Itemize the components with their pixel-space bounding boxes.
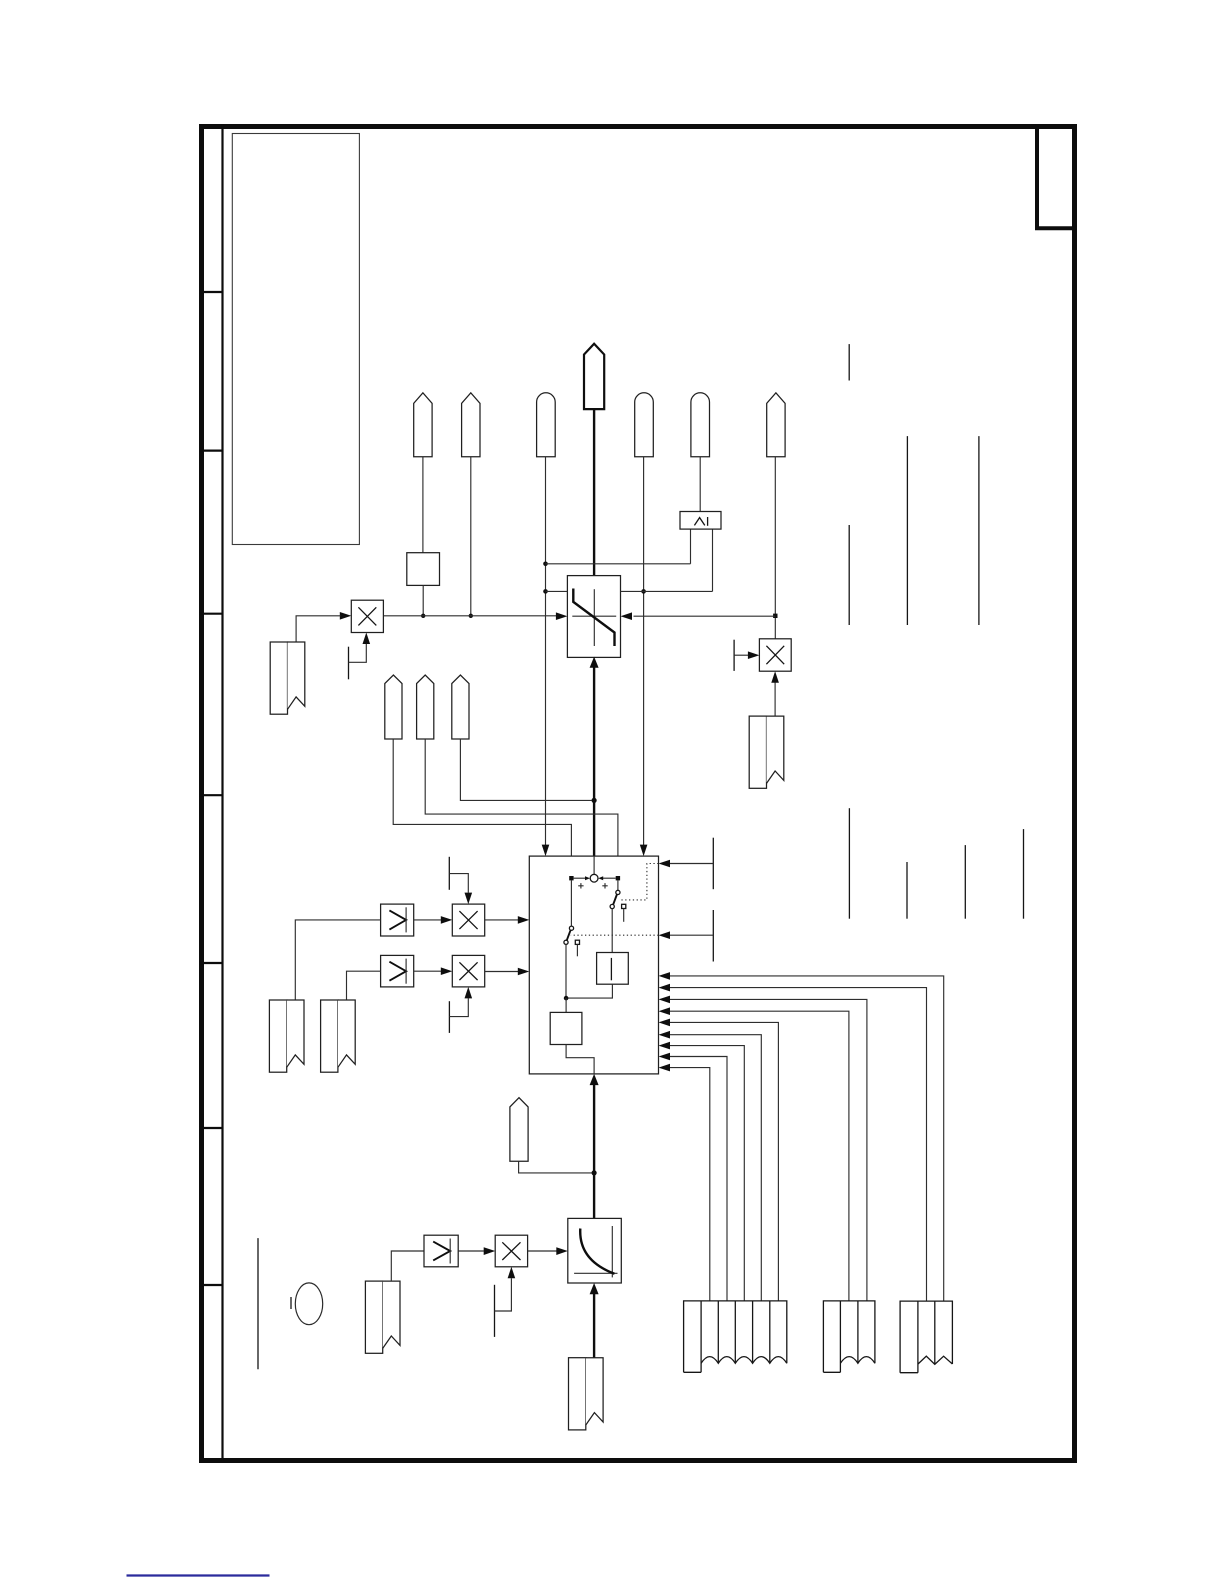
wire TB4 to X4 bottom — [449, 998, 468, 1016]
arrow into exp block left — [556, 1247, 568, 1255]
port tag P8 — [510, 1098, 528, 1162]
junction dot P3/y564 — [543, 562, 548, 567]
arrow into subsystem right #9 — [659, 1064, 671, 1072]
annotation tick — [290, 1297, 292, 1309]
X5 glyph — [502, 1242, 520, 1260]
footer hyperlink underline — [127, 1574, 270, 1576]
arrow into X3 top — [465, 893, 473, 905]
X2 glyph — [766, 646, 784, 664]
R5 glyph chevron — [433, 1242, 450, 1261]
wire X3 to subsystem left — [485, 919, 518, 921]
wire Pc to bold trunk — [460, 739, 591, 800]
arrow into subsystem right #6 — [659, 1031, 671, 1039]
saturation block — [567, 576, 620, 658]
goto tag F4 right half — [338, 1000, 355, 1067]
annotation line L5 — [848, 808, 850, 919]
port tag P3 (rounded) — [537, 393, 556, 457]
bar block (1/z) — [597, 953, 629, 985]
arrow into subsystem right #4 — [659, 1007, 671, 1015]
goto tag F3 right half — [287, 1000, 304, 1067]
port tag P2 — [462, 393, 480, 457]
junction square dot sum right — [616, 876, 620, 880]
wire y591 left piece — [546, 590, 568, 592]
strip divider 5 — [199, 962, 223, 964]
annotation line L1 — [848, 344, 850, 380]
port tag P5 (rounded) — [635, 393, 654, 457]
wire lower switch down — [565, 944, 567, 998]
wire from-tag riser 2 — [670, 988, 927, 1302]
mini arrow into sum right — [598, 876, 603, 880]
R5 glyph bar — [449, 1239, 451, 1264]
strip divider 3 — [199, 613, 223, 615]
GE glyph chevron — [694, 518, 704, 526]
arrow into X1 left — [340, 612, 352, 620]
lower switch unused square — [575, 940, 579, 944]
page border frame — [202, 127, 1075, 1461]
plus sign left — [578, 883, 583, 888]
group A divider 4 — [752, 1301, 754, 1363]
from tag F6 left half — [569, 1358, 586, 1430]
junction dot S2 net — [564, 996, 569, 1001]
from-tag group A top edge — [684, 1301, 787, 1372]
relational block R2 — [381, 955, 414, 987]
upper switch lever — [613, 895, 617, 905]
wire bold trunk subsystem to exp block — [593, 1084, 595, 1218]
group A scallops — [701, 1357, 787, 1364]
port tag Pc — [452, 675, 469, 739]
constant bar TB4 — [448, 1001, 450, 1033]
mini arrow into sum left — [585, 876, 590, 880]
arrow into X4 left — [441, 967, 453, 975]
port tag P1 — [414, 393, 432, 457]
annotation line L2 — [906, 436, 908, 625]
lower switch throw circle — [564, 940, 568, 944]
wire from-tag riser 4 — [670, 1011, 849, 1301]
wire bold trunk subsystem to saturation — [593, 667, 595, 856]
bold arrow into saturation bottom — [590, 657, 599, 668]
group A divider 3 — [734, 1301, 736, 1363]
arrow into X4 bottom — [465, 987, 473, 999]
wire y591 riser to GE pin — [712, 529, 714, 591]
wire P2 stem — [470, 457, 472, 616]
constant bar TB6 — [712, 838, 714, 890]
wire upper switch to bar block — [611, 909, 613, 953]
constant bar TB3 — [448, 857, 450, 890]
wire from-tag riser 5 — [670, 1022, 778, 1301]
arrow into subsystem right #3 — [659, 996, 671, 1004]
strip divider 7 — [199, 1284, 223, 1286]
bold arrow into subsystem bottom — [590, 1074, 599, 1085]
group A divider 5 — [769, 1301, 771, 1363]
R1 glyph chevron — [389, 910, 406, 929]
upper switch square stub — [623, 909, 625, 922]
plus sign right — [602, 883, 607, 888]
wire F2 to X2 bottom — [774, 683, 776, 717]
frame left strip inner line — [221, 124, 223, 1461]
wire P4 bold stem — [593, 409, 595, 575]
arrow into X2 bottom — [771, 671, 779, 683]
goto tag F1 left half — [270, 642, 287, 714]
wire S1 to main net — [422, 585, 424, 615]
exp block bold curve — [580, 1229, 614, 1274]
saturation axis vertical — [593, 589, 595, 646]
port tag P4 (bold) — [584, 344, 604, 409]
wire y564 riser to GE pin — [690, 529, 692, 564]
relational block GE — [680, 512, 721, 530]
wire S2 bottom to subsystem input — [566, 1045, 594, 1074]
title block rectangle — [232, 134, 359, 545]
lower switch lever — [567, 930, 571, 940]
port tag P6 (rounded) — [691, 393, 710, 457]
upper switch unused square — [622, 904, 626, 908]
from tag F2 right half — [767, 716, 784, 783]
arrow into X5 left — [484, 1247, 496, 1255]
X1 glyph — [358, 607, 376, 625]
wire bar block bottom to junction — [566, 984, 612, 998]
wire sum output to top edge — [593, 856, 595, 874]
arrow into subsystem right y935 — [659, 931, 671, 939]
wire sum left input — [574, 877, 586, 879]
wire TB5 to X5 bottom — [495, 1278, 512, 1311]
group C zigzag bottom — [918, 1356, 953, 1364]
saturation bold curve — [573, 589, 614, 647]
block S1 (empty square) — [407, 553, 440, 586]
arrow into X3 left — [441, 916, 453, 924]
wire from-tag riser 9 — [670, 1068, 710, 1301]
wire TB3 to X3 top — [449, 874, 468, 893]
upper switch throw circle — [610, 904, 614, 908]
arrow into subsystem right #5 — [659, 1019, 671, 1027]
goto tag F5 left half — [365, 1281, 382, 1353]
wire sum right input — [602, 877, 615, 879]
wire y591 right piece — [621, 590, 713, 592]
upper switch pole circle — [616, 890, 620, 894]
strip divider 2 — [199, 450, 223, 452]
wire from-tag riser 7 — [670, 1046, 744, 1301]
wire y564 net — [546, 563, 691, 565]
wire from-tag riser 1 — [670, 976, 944, 1301]
group B divider 2 — [857, 1301, 859, 1363]
product block X4 — [452, 955, 484, 987]
port tag P7 — [767, 393, 785, 457]
R2 glyph bar — [405, 959, 407, 984]
wire P5 stem down to subsystem — [643, 457, 645, 846]
junction square dot sum left — [569, 876, 573, 880]
exp block axis vertical — [611, 1226, 613, 1277]
group C left column bottom — [900, 1372, 918, 1374]
wire to lower switch — [570, 880, 572, 926]
junction dot S1 net — [421, 614, 425, 618]
exp block axis horizontal — [574, 1272, 617, 1274]
arrow into subsystem left y920 — [518, 916, 530, 924]
arrow into subsystem right #7 — [659, 1042, 671, 1050]
group B scallops — [840, 1357, 875, 1364]
product block X3 — [452, 904, 484, 936]
group B left column bottom — [823, 1371, 840, 1373]
wire P7 / X2 output line — [774, 457, 776, 639]
wire P3 stem down to subsystem — [545, 457, 547, 846]
top right zone box — [1037, 127, 1075, 229]
exp lookup block — [568, 1218, 622, 1283]
group A divider 1 — [700, 1301, 702, 1372]
arrow into X1 bottom — [363, 633, 371, 645]
wire junction to S2 — [565, 998, 567, 1012]
product block X5 — [495, 1235, 527, 1267]
strip divider 1 — [199, 291, 223, 293]
constant bar TB2 — [733, 640, 735, 671]
group A left column bottom — [684, 1371, 702, 1373]
wire P1 stem — [422, 457, 424, 553]
annotation line L6 — [906, 862, 908, 919]
constant bar TB7 — [712, 910, 714, 962]
annotation ellipse — [295, 1283, 322, 1325]
wire P8 to bold trunk — [519, 1161, 592, 1173]
wire X4 to subsystem left — [485, 971, 518, 973]
goto tag F5 right half — [383, 1281, 400, 1348]
wire from-tag riser 6 — [670, 1035, 761, 1301]
group C divider 1 — [917, 1301, 919, 1373]
group A divider 2 — [717, 1301, 719, 1363]
wire R1 to X3 — [414, 919, 441, 921]
bold junction dot P8 feed — [592, 1170, 597, 1175]
wire from-tag riser 3 — [670, 999, 867, 1301]
bold arrow into exp bottom — [590, 1283, 599, 1294]
arrow into subsystem right #8 — [659, 1053, 671, 1061]
annotation line L4 — [848, 525, 850, 625]
arrow into subsystem left y971 — [518, 968, 530, 976]
bold junction dot Pc feed — [592, 798, 597, 803]
wire P6 stem — [699, 457, 701, 512]
product block X1 — [351, 600, 383, 632]
junction dot P5/y591 — [641, 589, 646, 594]
bar block fraction bar — [610, 958, 612, 980]
arrow into X5 bottom — [508, 1267, 516, 1279]
wire from-tag riser 8 — [670, 1057, 727, 1301]
saturation axis horizontal — [572, 615, 616, 617]
dotted control line upper — [620, 864, 659, 900]
R2 glyph chevron — [389, 962, 406, 981]
from tag F2 left half — [749, 716, 766, 788]
lower switch pole circle — [569, 926, 573, 930]
R1 glyph bar — [405, 907, 407, 932]
wire TB1 to X1 bottom — [349, 644, 367, 662]
relational block R1 — [381, 904, 414, 936]
annotation line L3 — [978, 436, 980, 625]
wire R5 to X5 — [458, 1250, 484, 1252]
wire F4 to R2 — [347, 971, 381, 1000]
arrow into subsystem right #1 — [659, 972, 671, 980]
wire TB6 to subsystem right edge — [670, 863, 713, 865]
wire Pa to subsystem sum left — [393, 739, 571, 876]
wire Pb to subsystem sum right — [425, 739, 618, 876]
product block X2 — [759, 639, 791, 671]
arrow into subsystem right #2 — [659, 984, 671, 992]
group B divider 1 — [839, 1301, 841, 1372]
wire R2 to X4 — [414, 970, 441, 972]
lower switch square stub — [576, 944, 578, 956]
subsystem block — [529, 856, 658, 1074]
constant bar TB1 — [348, 647, 350, 680]
port tag Pb — [417, 675, 434, 739]
wire X5 to exp block — [528, 1250, 557, 1252]
group C divider 2 — [934, 1301, 936, 1364]
sum circle — [590, 874, 598, 882]
X3 glyph — [459, 911, 477, 929]
wire main net right segment — [634, 615, 776, 617]
arrow into subsystem right y863 — [659, 860, 671, 868]
arrow P3 into subsystem top — [542, 845, 550, 857]
goto tag F4 left half — [321, 1000, 338, 1072]
wire to upper switch — [617, 880, 619, 890]
annotation line bottom-left — [257, 1238, 259, 1369]
dotted control line lower — [571, 934, 659, 936]
goto tag F3 left half — [269, 1000, 286, 1072]
annotation line L7 — [964, 845, 966, 919]
relational block R5 — [424, 1235, 458, 1267]
X4 glyph — [459, 962, 477, 980]
GE glyph bar — [707, 517, 709, 526]
block S2 (empty square) — [550, 1012, 582, 1044]
wire TB7 to subsystem right edge — [670, 934, 713, 936]
goto tag F1 right half — [288, 642, 305, 709]
wire bold F6 to exp — [593, 1293, 595, 1357]
arrow into saturation left — [556, 612, 568, 620]
port tag Pa — [385, 675, 402, 739]
wire main net left segment — [383, 615, 556, 617]
wire F3 to R1 — [295, 920, 380, 1000]
arrow into saturation right — [621, 612, 633, 620]
annotation line L8 — [1023, 829, 1025, 919]
constant bar TB5 — [494, 1285, 496, 1337]
arrow P5 into subsystem top — [640, 845, 648, 857]
wire F5 to R5 — [391, 1251, 424, 1281]
strip divider 6 — [199, 1127, 223, 1129]
junction square dot P7 net — [773, 614, 777, 618]
strip divider 4 — [199, 794, 223, 796]
arrow into X2 left — [748, 651, 760, 659]
from tag F6 right half — [586, 1358, 603, 1425]
junction dot P2 net — [469, 614, 473, 618]
junction dot P3/y591 — [543, 589, 548, 594]
from-tag group B outline — [823, 1301, 875, 1372]
wire TB2 to X2 — [734, 654, 748, 656]
goto tag group C outline — [900, 1301, 952, 1373]
wire F1 to X1 — [296, 616, 340, 642]
